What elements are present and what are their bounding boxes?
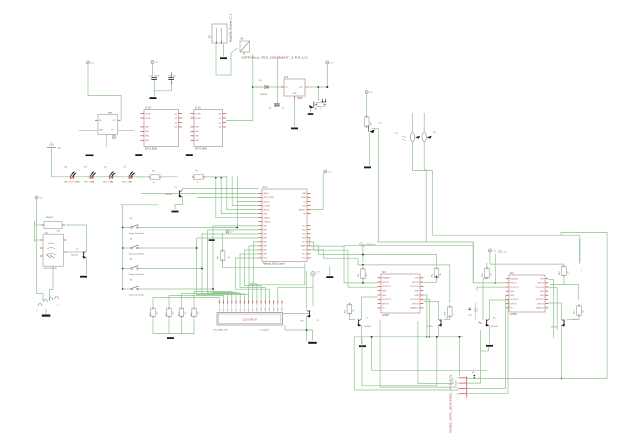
ground under T4	[486, 345, 493, 347]
svg-text:L293D: L293D	[382, 315, 389, 317]
wire from IC2A outputs to right	[226, 87, 253, 120]
svg-text:OUTPUT1: OUTPUT1	[510, 287, 518, 289]
svg-text:BC550: BC550	[426, 326, 433, 328]
wire mid bottom vertical	[312, 287, 314, 306]
wires IC2 left pins routed up	[237, 176, 258, 201]
svg-text:R14: R14	[482, 274, 484, 277]
svg-text:(XTAL2): (XTAL2)	[263, 216, 270, 219]
resistor R13	[168, 307, 170, 309]
transistor T5	[563, 319, 565, 325]
svg-text:ROT_5MM: ROT_5MM	[103, 181, 113, 183]
connector K2 pins	[466, 376, 468, 397]
wire T2 collector to IC3	[362, 297, 378, 319]
ground bar under IC2 area	[326, 276, 333, 278]
wire caps to gnd bar	[154, 80, 156, 96]
wire 78L05 left	[79, 129, 98, 131]
svg-text:PC6: PC6	[302, 230, 306, 232]
wire K1 down	[312, 276, 314, 287]
wire T4 emitter to ground	[489, 326, 491, 344]
supply +5V over R2	[365, 91, 368, 94]
wire R7 net to IC pin	[205, 177, 259, 210]
resistor R13	[449, 305, 451, 308]
resistor R15	[193, 307, 195, 309]
svg-text:GND: GND	[510, 295, 515, 297]
svg-text:k: k	[581, 270, 582, 272]
supply +5V left	[87, 61, 90, 64]
wire LCD to T6 base	[283, 313, 310, 315]
resistor R11 right of IC3	[436, 267, 438, 269]
wires at IC4 bottom	[481, 350, 489, 352]
ground under quartz	[42, 315, 51, 317]
wire resistor row bottoms to ground	[153, 319, 194, 334]
svg-text:1k: 1k	[197, 182, 199, 184]
supply +5V symbol	[151, 61, 154, 64]
LED row wire	[66, 176, 149, 178]
wire relay to diode row	[253, 54, 263, 87]
svg-text:INPUT3: INPUT3	[412, 303, 419, 305]
ground below caps	[150, 97, 157, 99]
ground under T8	[364, 167, 371, 169]
LCD module box	[217, 313, 283, 326]
wire LCD gnd to emitter rail	[285, 325, 313, 341]
wires down from IC3 bottom to connector	[459, 337, 461, 376]
svg-text:GND: GND	[540, 295, 545, 297]
dark wire segment	[579, 239, 581, 262]
resistor R10	[362, 246, 364, 263]
wire T8 to long vertical	[372, 128, 379, 130]
svg-text:IC 5: IC 5	[284, 77, 289, 79]
svg-text:10k: 10k	[366, 274, 368, 277]
net flag GND above IC3	[360, 243, 363, 246]
svg-text:PA0: PA0	[302, 192, 305, 195]
wire regulator to T9	[317, 87, 319, 101]
svg-text:(XPL)_BTB0: (XPL)_BTB0	[263, 197, 274, 199]
ground under IC2	[186, 154, 193, 156]
svg-text:+5V: +5V	[369, 92, 373, 94]
wire T6 emitter to ground	[306, 317, 308, 341]
svg-text:Taster_Kurzhub: Taster_Kurzhub	[129, 232, 145, 235]
net flag above R16	[468, 308, 470, 310]
svg-text:CLKA: CLKA	[145, 112, 151, 115]
ground under resistor row	[167, 337, 174, 339]
wire IC2 pin2 net	[197, 197, 259, 199]
svg-text:R12: R12	[344, 310, 346, 313]
svg-text:1k: 1k	[320, 109, 322, 111]
svg-text:OS6: OS6	[302, 205, 306, 207]
svg-text:OUTPUT1: OUTPUT1	[382, 286, 391, 288]
wires IC2 left pins routed down to LCD	[213, 226, 259, 301]
wire T5 emitter down	[561, 326, 563, 338]
ground under T1	[172, 211, 179, 213]
svg-text:PC7: PC7	[302, 225, 306, 227]
svg-text:GND: GND	[292, 93, 297, 95]
svg-text:PB5: PB5	[263, 234, 267, 236]
capacitor C7	[423, 113, 425, 132]
svg-text:10nF: 10nF	[155, 75, 160, 77]
transistor T9	[313, 102, 315, 108]
svg-text:PC4: PC4	[302, 238, 306, 240]
supply +5V left rail	[35, 196, 38, 199]
svg-text:ENABLE2: ENABLE2	[536, 307, 544, 310]
svg-text:PB0: PB0	[263, 254, 267, 256]
wire T1 collector to IC2	[183, 189, 259, 191]
supply +5V right of regulator	[326, 61, 329, 64]
svg-text:GND: GND	[415, 295, 420, 297]
wire T4 collector	[490, 300, 506, 319]
resistor R9	[222, 233, 224, 251]
svg-text:10k: 10k	[227, 257, 230, 259]
svg-text:10k: 10k	[490, 273, 492, 276]
wire K2 pin3 to IC4	[467, 295, 506, 388]
svg-text:Display?: Display?	[261, 330, 270, 332]
wire crystal caps down to bus	[413, 171, 433, 236]
svg-text:CLKB: CLKB	[195, 118, 201, 120]
wire S2 to bus	[138, 247, 197, 249]
svg-text:OUTPUT4: OUTPUT4	[535, 287, 543, 289]
wire T2 base	[349, 315, 355, 320]
svg-text:6337-S-1234: 6337-S-1234	[44, 268, 57, 270]
svg-text:Taster_Kurzhub: Taster_Kurzhub	[129, 273, 145, 276]
svg-text:R19: R19	[574, 311, 576, 314]
wire R4 to T1 base	[161, 176, 178, 178]
wire bus into IC4 left	[473, 282, 506, 284]
svg-text:ROT_5MM: ROT_5MM	[84, 181, 94, 183]
wires below 6337	[37, 242, 43, 301]
wire vcc to caps	[152, 64, 154, 78]
svg-text:GND0: GND0	[263, 193, 268, 195]
motor driver IC3	[381, 274, 420, 313]
svg-text:4: 4	[457, 394, 458, 396]
svg-text:10n: 10n	[173, 75, 176, 77]
svg-text:Rad(20)_Racher_7_1: Rad(20)_Racher_7_1	[230, 13, 233, 42]
wire T3 base	[444, 317, 450, 320]
wire 78L05 right	[118, 129, 135, 131]
svg-text:PC0: PC0	[302, 258, 306, 260]
wire T5 collector	[548, 303, 561, 319]
svg-text:BC550: BC550	[166, 194, 173, 196]
svg-text:OS6: OS6	[263, 213, 267, 215]
svg-text:+5V: +5V	[39, 197, 43, 199]
svg-text:R14: R14	[178, 313, 180, 316]
svg-text:IC 2A: IC 2A	[195, 106, 201, 109]
svg-text:BC550: BC550	[491, 326, 498, 328]
label K5 dots	[474, 375, 476, 377]
svg-text:Taster_Kurzhub: Taster_Kurzhub	[129, 293, 145, 296]
svg-text:PB7: PB7	[263, 225, 267, 227]
svg-text:R13: R13	[445, 312, 447, 315]
svg-text:LCD DISPLAY: LCD DISPLAY	[242, 318, 258, 321]
svg-text:(MOSI): (MOSI)	[263, 209, 269, 211]
antenna U$1	[47, 147, 56, 149]
wire S1 to bus	[138, 227, 238, 229]
svg-text:PC2: PC2	[302, 250, 306, 252]
svg-text:INPUT2: INPUT2	[510, 303, 516, 305]
resistor R14 left of IC4	[486, 263, 488, 268]
IC1 logic EXT4_EMN	[144, 110, 179, 147]
ground under IC1	[135, 154, 142, 156]
wire regulator out to +5V	[305, 86, 327, 88]
svg-text:ENABLE1: ENABLE1	[510, 278, 518, 281]
quartz Q1 left	[38, 296, 59, 306]
svg-text:BC550: BC550	[71, 255, 78, 257]
black bar near R9	[209, 239, 215, 241]
wire IC2 pin1 net	[141, 192, 259, 194]
LCD pins	[218, 301, 220, 304]
resistor R2	[366, 94, 368, 117]
resistor R19	[578, 304, 580, 307]
svg-text:GND(label): GND(label)	[366, 244, 376, 246]
svg-text:KIPP(Ein)_7E5_OZ(MitM)T_1-P.0_: KIPP(Ein)_7E5_OZ(MitM)T_1-P.0_LO	[242, 57, 308, 60]
svg-text:GND: GND	[540, 291, 545, 293]
svg-text:INPUT3: INPUT3	[537, 303, 543, 305]
transistor T8	[370, 130, 375, 134]
svg-text:2u: 2u	[282, 108, 284, 110]
wire K3 pin1 to relay K6	[216, 44, 238, 75]
svg-text:R3: R3	[315, 109, 317, 111]
svg-text:R10: R10	[358, 274, 360, 277]
wire 78L05 bottom	[106, 134, 108, 147]
ground under regulator	[291, 128, 298, 130]
svg-text:1N4001: 1N4001	[260, 94, 268, 96]
svg-text:GND: GND	[510, 291, 515, 293]
svg-text:INPUT2: INPUT2	[382, 303, 389, 305]
svg-text:R15: R15	[191, 313, 193, 316]
supply +5V to reset	[324, 170, 327, 173]
wire T1 emitter to ground	[175, 197, 183, 210]
transistor T4	[486, 319, 488, 325]
svg-text:Taster_Kurzhub: Taster_Kurzhub	[129, 253, 145, 256]
ground under T7	[80, 276, 87, 278]
svg-text:+5V: +5V	[155, 62, 159, 64]
svg-text:OUTPUT4: OUTPUT4	[410, 286, 419, 288]
svg-text:RESET*: RESET*	[299, 209, 306, 211]
wires IC2 right pins nest	[310, 238, 378, 283]
wire S3 to bus	[138, 268, 203, 270]
motor driver IC4	[509, 275, 545, 312]
svg-text:TA41B: TA41B	[46, 216, 53, 219]
wire K3 pin2 to ground	[223, 44, 225, 57]
svg-text:+5V: +5V	[327, 171, 331, 173]
svg-text:PC1: PC1	[302, 254, 306, 256]
svg-text:EXT4_EMN: EXT4_EMN	[145, 149, 157, 151]
resistor R12b left of IC3	[348, 303, 350, 305]
pin K1	[311, 272, 315, 276]
svg-text:10k: 10k	[353, 309, 355, 312]
wire IC3 right to nets	[423, 281, 436, 283]
ground under T2	[359, 345, 366, 347]
svg-text:PB4: PB4	[263, 238, 267, 240]
svg-text:BC550: BC550	[364, 326, 371, 328]
svg-text:10k: 10k	[440, 273, 442, 276]
svg-text:R12: R12	[150, 313, 152, 316]
long bus wire to right side	[432, 234, 580, 236]
wire S4 to bus	[138, 288, 214, 290]
svg-text:7805: 7805	[297, 98, 303, 100]
svg-text:IC 1A: IC 1A	[145, 106, 151, 109]
IC2 logic EXT4_5MN	[194, 110, 223, 147]
pin circle under 78L05	[112, 135, 116, 139]
wire K2 pin4 to IC4	[467, 300, 508, 394]
svg-text:(TXAL1): (TXAL1)	[263, 220, 270, 223]
svg-text:10k: 10k	[185, 311, 187, 314]
svg-text:2: 2	[457, 383, 458, 385]
svg-text:ROT_5MM: ROT_5MM	[122, 181, 132, 183]
svg-text:OUTPUT2: OUTPUT2	[382, 299, 391, 301]
svg-text:GND: GND	[415, 291, 420, 293]
wire T9 to gnd	[310, 108, 312, 113]
wire K2 pin2 up	[467, 330, 481, 383]
svg-text:LED_ROT_5MM: LED_ROT_5MM	[64, 181, 80, 183]
svg-text:INPUT1: INPUT1	[510, 283, 516, 285]
wires IC4 right side	[548, 278, 553, 280]
svg-text:L293D: L293D	[510, 314, 517, 316]
svg-text:GND: GND	[99, 130, 104, 132]
wire T7 emitter to ground	[86, 258, 88, 275]
svg-text:10k: 10k	[197, 311, 199, 314]
wire R18 bottom	[550, 277, 564, 285]
opto device 6337	[43, 234, 64, 266]
svg-text:x: x	[454, 314, 455, 316]
wire vcc into IC4	[490, 252, 564, 264]
svg-text:INPUT1: INPUT1	[382, 282, 389, 284]
wires IC3 right pins down	[423, 295, 427, 337]
resistor R3	[315, 104, 318, 106]
svg-text:R18: R18	[559, 272, 561, 275]
svg-text:OUTPUT3: OUTPUT3	[410, 299, 419, 301]
svg-text:INPUT4: INPUT4	[537, 283, 543, 285]
svg-text:+5V: +5V	[330, 62, 334, 64]
wire T1 area join	[120, 204, 158, 206]
svg-text:AtMega_8535_board: AtMega_8535_board	[263, 263, 285, 266]
svg-text:GND: GND	[382, 291, 387, 293]
svg-text:+5V: +5V	[230, 231, 234, 233]
svg-text:10k: 10k	[582, 310, 584, 313]
svg-text:LCD_EA6_216: LCD_EA6_216	[213, 329, 228, 332]
wire T2 emitter to ground	[361, 326, 363, 344]
wires from IC2 down to T6	[305, 271, 307, 309]
svg-text:OUTPUT2: OUTPUT2	[510, 299, 518, 301]
microcontroller IC2 ATmega8535	[262, 189, 307, 262]
svg-text:PB2: PB2	[263, 246, 267, 248]
wire T7 collector up	[66, 225, 87, 251]
wire T8 emitter down to ground	[369, 133, 371, 166]
transistor T6	[309, 310, 311, 316]
svg-text:R11: R11	[431, 274, 433, 277]
svg-text:1k: 1k	[153, 182, 155, 184]
svg-text:INPUT4: INPUT4	[412, 282, 419, 284]
svg-text:PB3: PB3	[263, 242, 267, 244]
svg-text:IC 2: IC 2	[263, 187, 268, 189]
wire T3 emitter down	[438, 326, 440, 337]
wire T5 emitter to loop	[561, 338, 563, 379]
svg-text:(COM)6: (COM)6	[263, 205, 270, 207]
svg-text:CLKA: CLKA	[195, 112, 201, 115]
wire R19 to T5 base	[567, 316, 579, 320]
svg-text:+5V: +5V	[492, 250, 496, 252]
wire T4 base from R14	[483, 279, 487, 320]
svg-text:PC3: PC3	[302, 242, 306, 244]
wire T3 collector	[423, 302, 438, 320]
svg-text:OUTPUT3: OUTPUT3	[535, 299, 543, 301]
svg-text:AREF: AREF	[301, 245, 307, 248]
svg-text:R13: R13	[166, 313, 168, 316]
svg-text:GND: GND	[382, 295, 387, 297]
svg-text:10k: 10k	[567, 271, 569, 274]
svg-text:EXT4_5MN: EXT4_5MN	[195, 149, 207, 151]
wire to R19	[564, 284, 578, 300]
bottom bus wires	[354, 336, 463, 338]
svg-text:(XCP)4: (XCP)4	[263, 201, 269, 203]
transistor T3	[440, 319, 442, 325]
svg-text:PB1: PB1	[263, 250, 267, 252]
svg-text:+5V: +5V	[90, 62, 94, 64]
supply +5V over R9	[226, 230, 229, 233]
wire antenna to LED row	[52, 148, 67, 177]
wire 6337 to T7	[67, 251, 84, 253]
svg-text:ENABLE2: ENABLE2	[410, 307, 419, 310]
resistor R12	[152, 307, 154, 309]
connector K3	[212, 24, 227, 43]
svg-text:10k: 10k	[172, 311, 174, 314]
wire resistor row tops to LCD	[153, 298, 219, 307]
capacitor C3 at regulator	[276, 59, 278, 104]
supply +5V above IC4	[489, 249, 492, 252]
label GND bar mid	[86, 155, 94, 157]
resistor R18 right of IC4	[563, 265, 565, 267]
resistor R14	[181, 307, 183, 309]
svg-text:1: 1	[457, 378, 458, 380]
wire vcc rail to IC area	[88, 65, 121, 121]
wire regulator gnd down	[294, 99, 296, 127]
wires around IC3 top	[362, 254, 364, 256]
ground under T6	[308, 342, 317, 344]
svg-text:CLKB: CLKB	[145, 118, 151, 120]
svg-text:10k: 10k	[156, 311, 158, 314]
svg-text:PDA0: PDA0	[301, 196, 306, 199]
svg-text:PC5: PC5	[302, 234, 306, 236]
wire rail into devices	[34, 221, 36, 242]
svg-text:PB6: PB6	[263, 230, 267, 232]
right edge loop	[467, 232, 607, 378]
ground below K3	[220, 57, 227, 59]
svg-text:PD2: PD2	[263, 258, 267, 260]
svg-text:ENABLE1: ENABLE1	[382, 277, 391, 280]
